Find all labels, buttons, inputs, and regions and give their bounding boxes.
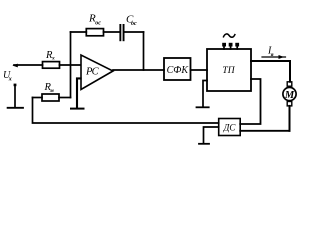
svg-text:М: М [284, 90, 295, 101]
svg-text:СФК: СФК [167, 65, 190, 76]
svg-text:я: я [270, 52, 274, 58]
svg-text:ТП: ТП [222, 66, 235, 76]
svg-text:ДС: ДС [223, 122, 237, 132]
svg-text:ос: ос [131, 21, 137, 27]
svg-text:РС: РС [85, 67, 100, 78]
svg-text:х: х [8, 77, 12, 83]
svg-text:х: х [51, 56, 55, 62]
svg-text:ос: ос [95, 21, 101, 27]
svg-text:м: м [49, 88, 54, 94]
